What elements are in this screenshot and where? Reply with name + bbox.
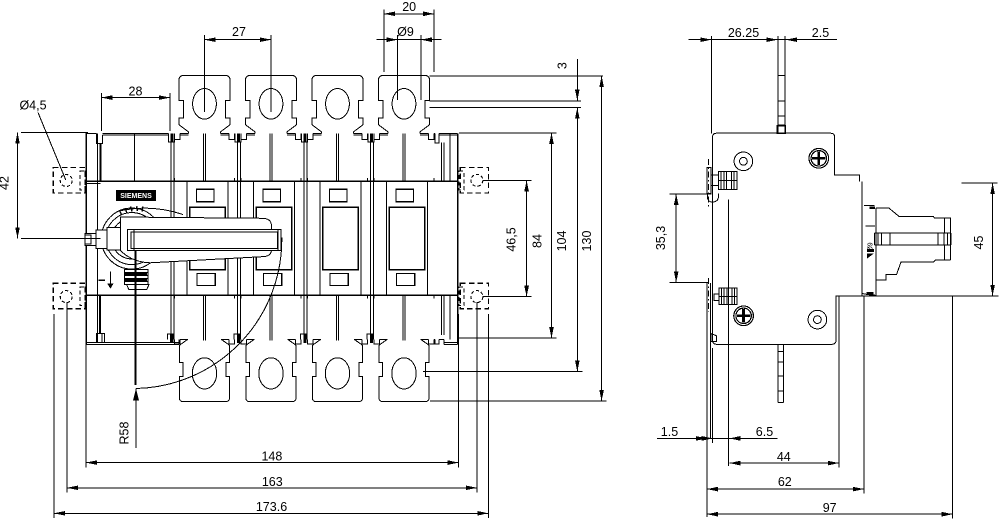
mounting bracket lower-left with hole xyxy=(53,283,85,309)
handle bar inner groove xyxy=(127,230,281,251)
DIN rail clip upper xyxy=(707,168,711,194)
DIN rail clip lower xyxy=(719,288,737,305)
svg-text:Ø9: Ø9 xyxy=(397,25,414,39)
svg-text:44: 44 xyxy=(777,450,791,464)
svg-text:97: 97 xyxy=(823,501,837,515)
dimension 46.5 (right) xyxy=(482,179,531,181)
pole window openings xyxy=(190,207,226,269)
handle bar (white filled, occludes) xyxy=(121,217,272,263)
handle hub concentric circles xyxy=(101,208,162,269)
dimension 84 (right) xyxy=(459,132,557,134)
svg-text:173.6: 173.6 xyxy=(256,500,287,514)
dimension 97 (bottom) xyxy=(952,296,954,519)
tab shoulder notches on body edges xyxy=(175,133,181,139)
side view bottom terminal blade xyxy=(777,344,779,402)
top blade base block xyxy=(777,126,785,134)
svg-text:26.25: 26.25 xyxy=(728,26,759,40)
side view: case outline lower part xyxy=(713,296,864,345)
pole frame lines (middle band) xyxy=(186,181,188,295)
screw bottom-left (phillips) xyxy=(734,306,754,326)
svg-text:130: 130 xyxy=(580,231,594,252)
svg-text:3: 3 xyxy=(555,62,569,69)
small rib stubs on band lines xyxy=(174,178,176,182)
mounting bracket upper-right with hole xyxy=(460,167,488,193)
handle shaft blocks xyxy=(107,228,121,250)
pole divider lines xyxy=(170,142,172,334)
screw top-right (phillips) xyxy=(809,149,829,169)
front body top edge xyxy=(86,132,96,134)
svg-text:28: 28 xyxy=(129,85,143,99)
dimension diameter 9 (tab hole) xyxy=(397,35,399,100)
side view: case outline upper part xyxy=(713,133,860,341)
body band separation lines xyxy=(86,180,458,182)
screw bottom-right xyxy=(808,310,827,329)
dimension 20 (top tab width) xyxy=(383,10,385,73)
screw top-left xyxy=(734,152,753,171)
dimension 163 (bottom) xyxy=(66,302,68,492)
dimension 173.6 (bottom) xyxy=(53,314,55,518)
side module: terminal housing xyxy=(864,204,875,206)
side module: body step edge xyxy=(861,182,863,296)
dimension 45 (right) xyxy=(962,182,998,184)
handle groove left cap xyxy=(127,230,134,251)
handle swing arc R58 xyxy=(136,238,282,389)
mounting bracket lower-right with hole xyxy=(460,283,488,309)
svg-text:45: 45 xyxy=(972,236,986,250)
svg-text:Ø4,5: Ø4,5 xyxy=(19,99,46,113)
top terminal tabs with slotted holes xyxy=(179,75,230,133)
dimension 62 (bottom) xyxy=(863,296,865,494)
svg-text:35,3: 35,3 xyxy=(654,226,668,250)
front body bottom edge xyxy=(86,341,179,343)
svg-text:62: 62 xyxy=(778,475,792,489)
body inner side walls xyxy=(97,133,99,342)
dimension 148 (bottom) xyxy=(85,314,87,467)
case recess channel line xyxy=(728,200,730,467)
svg-text:R58: R58 xyxy=(118,421,132,444)
svg-text:SIEMENS: SIEMENS xyxy=(120,193,152,200)
svg-text:46,5: 46,5 xyxy=(504,227,518,251)
svg-text:84: 84 xyxy=(531,234,545,248)
dimension 42 (left) xyxy=(21,132,88,134)
svg-text:163: 163 xyxy=(262,475,283,489)
dimension 26.25 / 2.5 (top) xyxy=(710,36,712,133)
dimension 130 (right) xyxy=(430,400,606,402)
svg-text:42: 42 xyxy=(0,176,12,190)
side view top terminal blade xyxy=(777,36,779,133)
dimension 44 (bottom) xyxy=(838,296,840,468)
padlock latch ribs below hub xyxy=(124,270,148,285)
svg-text:6.5: 6.5 xyxy=(756,425,773,439)
pole centre slot lines xyxy=(202,133,204,181)
handle upper boss arc xyxy=(117,208,183,214)
pole divider slots on edges xyxy=(168,133,174,141)
dimension 35.3 (left) xyxy=(670,193,712,195)
dimension 27 (pole pitch) xyxy=(204,35,206,112)
bottom terminal tabs with slotted holes xyxy=(180,339,230,401)
terminal thickness reference lines xyxy=(430,75,604,77)
DIN rail plate (lower, doubles as 1.5 extension) xyxy=(706,283,708,517)
OFF indicator arrow xyxy=(109,272,111,285)
pole bottom small rectangles xyxy=(197,274,215,286)
dimension 1.5 / 6.5 (bottom) xyxy=(712,348,714,443)
svg-text:1.5: 1.5 xyxy=(661,425,678,439)
SIEMENS nameplate xyxy=(117,190,156,200)
dimension 3 (tab thickness) xyxy=(576,59,578,101)
svg-text:20: 20 xyxy=(402,0,416,14)
mechanism slot notches top/bottom left xyxy=(97,133,103,143)
front view: switch body outline xyxy=(85,133,87,344)
R58 radius line xyxy=(135,250,137,385)
dimension 104 (right) xyxy=(423,371,582,373)
hub knurling ticks xyxy=(120,206,143,215)
svg-text:148: 148 xyxy=(261,449,282,463)
svg-text:2.5: 2.5 xyxy=(812,26,829,40)
mounting bracket upper-left with hole xyxy=(53,167,85,193)
dimension 28 xyxy=(100,93,102,131)
pole top small rectangles xyxy=(197,189,215,202)
svg-text:27: 27 xyxy=(232,25,246,39)
side module: blade band xyxy=(874,232,951,234)
svg-text:104: 104 xyxy=(555,231,569,252)
